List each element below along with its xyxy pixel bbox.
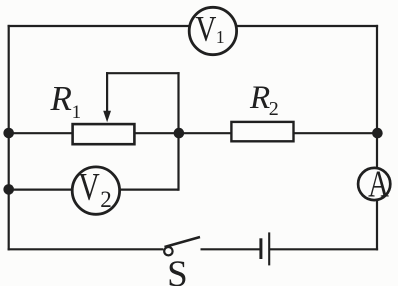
svg-text:R: R (249, 80, 270, 116)
node: right junction (372, 128, 383, 139)
wire: right side (376, 25, 378, 251)
voltmeter V1 (189, 7, 236, 54)
battery positive plate (long thin) (268, 232, 270, 265)
svg-text:V: V (195, 9, 216, 49)
svg-text:V: V (78, 165, 100, 208)
wire: bottom middle segment (switch to battery) (201, 248, 260, 250)
switch S lever (165, 237, 201, 247)
node: center junction (174, 128, 185, 139)
node: left main junction (3, 128, 14, 139)
wire: bottom right segment (battery to corner) (270, 248, 378, 250)
node: left V2 junction (3, 184, 14, 195)
wire: bottom left segment (to switch) (8, 248, 164, 250)
svg-text:R: R (50, 79, 72, 118)
svg-text:A: A (368, 163, 389, 205)
wire: wiper arrow vertical (106, 72, 108, 112)
wire: middle horizontal through R1 and R2 (8, 132, 377, 134)
switch S pivot circle (164, 247, 172, 255)
wire: rheostat wiper top horizontal (106, 72, 180, 74)
wire: left side (8, 25, 10, 251)
svg-text:S: S (167, 254, 188, 286)
wire: top side (8, 25, 379, 27)
ammeter A (358, 168, 390, 200)
resistor R2 (231, 122, 293, 141)
voltmeter V2 (72, 167, 119, 214)
svg-text:1: 1 (72, 102, 82, 123)
wire: wiper riser vertical (top wire down through node to V2 branch) (177, 72, 179, 191)
battery negative plate (short thick) (259, 238, 262, 259)
svg-text:1: 1 (216, 27, 225, 47)
wiper arrowhead (103, 111, 111, 123)
wire: V2 branch horizontal (8, 189, 179, 191)
resistor R1 (rheostat body) (73, 124, 135, 144)
svg-text:2: 2 (269, 98, 279, 120)
svg-text:2: 2 (100, 187, 112, 212)
